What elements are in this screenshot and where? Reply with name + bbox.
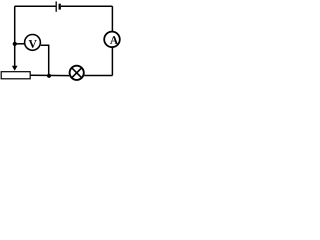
wire right down to ammeter	[111, 6, 113, 31]
wire voltmeter left lead	[15, 43, 25, 45]
lamp L1 circle	[70, 66, 84, 80]
voltmeter label V	[29, 40, 37, 48]
rheostat R1 body	[1, 72, 30, 79]
ammeter U1 circle	[104, 32, 120, 48]
wire left vertical	[14, 6, 16, 66]
rheostat R1 wiper arrowhead	[12, 66, 18, 71]
lamp L1 cross stroke 2	[72, 68, 82, 78]
ammeter label A	[110, 36, 118, 44]
junction node bottom	[47, 74, 51, 78]
junction node left	[13, 42, 17, 46]
wire voltmeter right lead	[41, 45, 49, 76]
wire bottom right segment	[84, 75, 112, 77]
voltmeter U2 circle	[25, 35, 41, 51]
wire top-left segment	[15, 5, 56, 7]
battery B1 short plate	[59, 4, 61, 10]
battery B1 long plate	[55, 1, 57, 11]
wire ammeter bottom to corner	[111, 48, 113, 76]
wire top-right segment	[61, 5, 113, 7]
wire bottom left of lamp	[31, 74, 70, 76]
lamp L1 cross stroke 1	[72, 68, 82, 78]
